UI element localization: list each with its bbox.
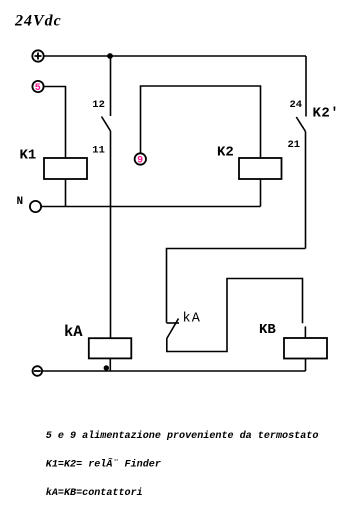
- wire main vertical lower (contact 11 to coil kA): [110, 131, 112, 338]
- svg-text:12: 12: [92, 99, 105, 111]
- terminal + (positive supply): [32, 50, 43, 61]
- relay coil K1: [44, 158, 87, 179]
- svg-text:K2: K2: [217, 145, 234, 161]
- wire terminal 5 to coil K1: [44, 87, 66, 159]
- terminal N: [30, 201, 41, 212]
- wire contact 21 down: [305, 132, 307, 249]
- wire coil K1 to N bus: [65, 179, 67, 207]
- contact kA blade: [167, 319, 179, 339]
- wire coil kA to minus bus: [109, 359, 111, 372]
- svg-text:K1=K2= relÃ¨ Finder: K1=K2= relÃ¨ Finder: [46, 457, 161, 470]
- wire horizontal to contact kA: [167, 249, 306, 323]
- svg-text:kA: kA: [64, 323, 83, 341]
- wire terminal 9 loop to coil K2: [141, 86, 261, 158]
- relay coil K2: [239, 158, 282, 179]
- wire contact kA to KB loop: [167, 279, 303, 352]
- wire N bus: [41, 206, 260, 208]
- terminal 9 (from thermostat): [135, 153, 146, 164]
- svg-text:kA: kA: [183, 311, 202, 326]
- svg-text:K2': K2': [313, 106, 340, 122]
- wire coil KB to minus bus: [305, 359, 307, 372]
- svg-text:9: 9: [137, 156, 143, 167]
- terminal - (negative supply): [33, 366, 43, 376]
- contact K1 11-12 (NC blade): [102, 117, 111, 132]
- svg-text:K1: K1: [20, 148, 37, 164]
- svg-text:5: 5: [35, 83, 41, 94]
- wire right branch vertical (to contact 24): [305, 56, 307, 117]
- svg-text:N: N: [17, 196, 24, 208]
- svg-text:11: 11: [92, 144, 105, 156]
- svg-text:5 e 9 alimentazione provenient: 5 e 9 alimentazione proveniente da termo…: [46, 430, 319, 442]
- contact kA hinge tick: [167, 322, 180, 324]
- wire top bus: [44, 55, 306, 57]
- contact K2' 21-24 (blade): [296, 117, 305, 132]
- junction dot minus bus: [104, 365, 109, 370]
- svg-text:kA=KB=contattori: kA=KB=contattori: [46, 487, 143, 499]
- svg-text:24Vdc: 24Vdc: [14, 13, 62, 30]
- wire bottom minus bus: [43, 370, 306, 372]
- wire main vertical upper (to contact 12): [110, 56, 112, 116]
- svg-text:24: 24: [290, 99, 303, 111]
- contactor coil KB: [284, 338, 327, 359]
- contactor coil kA: [89, 338, 132, 358]
- svg-text:21: 21: [288, 139, 301, 151]
- junction dot top bus / K1 branch: [107, 53, 113, 59]
- wire stub into coil KB: [304, 326, 306, 338]
- svg-text:KB: KB: [259, 322, 276, 338]
- wire coil K2 to N bus: [260, 179, 262, 207]
- terminal 5 (from thermostat): [32, 81, 43, 92]
